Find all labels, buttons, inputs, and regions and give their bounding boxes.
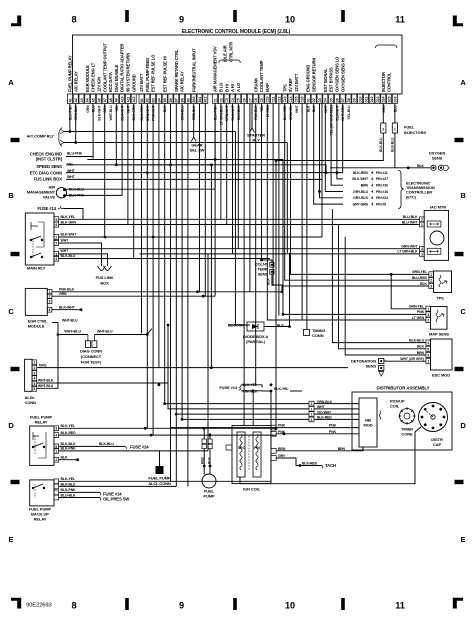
svg-text:C16: C16 (301, 96, 305, 102)
wire iac row3 (59, 248, 420, 250)
svg-text:5: 5 (55, 218, 57, 222)
svg-text:10: 10 (285, 601, 295, 611)
svg-text:FUSE #14: FUSE #14 (219, 385, 238, 390)
grid tick top x=343 (341, 10, 345, 22)
svg-text:D: D (460, 421, 466, 430)
svg-text:INJECTORS: INJECTORS (404, 130, 426, 135)
svg-text:3: 3 (427, 313, 429, 317)
svg-text:GRY-GRN: GRY-GRN (352, 202, 368, 206)
svg-text:GRN-WHT: GRN-WHT (401, 245, 418, 249)
svg-text:BLK-RED: BLK-RED (353, 171, 369, 175)
wire injector drops (276, 104, 395, 168)
wire egr wht-blu down (52, 322, 58, 324)
svg-text:4: 4 (421, 247, 423, 251)
svg-text:PARK/NEUTRAL INPUT: PARK/NEUTRAL INPUT (191, 48, 196, 92)
svg-text:D9: D9 (353, 98, 357, 102)
ECM connector A pin boxes (67, 94, 136, 104)
svg-text:CTRL MTR: CTRL MTR (229, 42, 234, 62)
svg-text:WHT-BLU: WHT-BLU (38, 384, 54, 388)
svg-text:A/C RELAY: A/C RELAY (73, 71, 78, 92)
sensor TPS (434, 271, 452, 301)
hei pin boxes (309, 400, 333, 422)
svg-text:3: 3 (311, 402, 313, 406)
wire starter rly (251, 104, 253, 129)
wire fuse14 mid runs (241, 385, 302, 391)
svg-text:COIL: COIL (390, 404, 400, 409)
wire main rly row3 BLK-WHT (59, 236, 322, 239)
svg-text:D2: D2 (312, 98, 316, 102)
ECM connector D pin boxes (305, 94, 397, 104)
relay MAIN RLY (25, 213, 54, 271)
svg-text:BRN: BRN (278, 447, 286, 451)
svg-text:3: 3 (33, 371, 35, 375)
svg-text:WHT-BLU: WHT-BLU (97, 330, 113, 334)
wire oxygen sens from left (330, 166, 431, 169)
wire detonation to esc (384, 360, 386, 362)
wire tps rows (282, 104, 429, 287)
ECM title (182, 29, 291, 35)
svg-text:CONN: CONN (25, 400, 37, 405)
grid letter A left (8, 78, 14, 87)
sensor DETONATION SENS (351, 359, 384, 377)
svg-text:D10: D10 (359, 96, 363, 102)
svg-text:1: 1 (311, 407, 313, 411)
wire main rly row4 WHT to fus link (59, 243, 102, 263)
svg-text:PIN #11: PIN #11 (376, 171, 388, 175)
svg-text:CORE: CORE (401, 432, 413, 437)
svg-text:RELAY: RELAY (35, 420, 48, 425)
esc pin boxes (400, 338, 430, 363)
svg-text:4: 4 (427, 341, 429, 345)
valve AIR MANAGEMENT VALVE (27, 185, 85, 200)
svg-text:3: 3 (55, 427, 57, 431)
grid letter D right (460, 421, 466, 430)
svg-text:PIN #16: PIN #16 (376, 190, 388, 194)
svg-text:YEL-BLU: YEL-BLU (347, 105, 351, 120)
svg-text:COOLANT TEMP: COOLANT TEMP (259, 60, 264, 92)
svg-text:A LO: A LO (236, 82, 241, 92)
svg-text:GRN-YEL: GRN-YEL (289, 105, 293, 120)
svg-text:2: 2 (55, 458, 57, 462)
svg-text:C2: C2 (219, 98, 223, 102)
svg-text:6: 6 (33, 387, 35, 391)
svg-text:(INST CLSTR): (INST CLSTR) (36, 157, 63, 162)
drawing number 90E22693 (26, 603, 52, 609)
svg-text:A8: A8 (109, 98, 113, 102)
sensor OXYGEN SENS (417, 151, 449, 171)
svg-text:3: 3 (427, 354, 429, 358)
svg-text:CAP: CAP (433, 442, 442, 447)
svg-text:10: 10 (285, 15, 295, 25)
transformer IGN COIL (232, 426, 271, 492)
svg-text:8: 8 (71, 15, 76, 25)
svg-text:ELECTRONIC CONTROL MODULE (ECM: ELECTRONIC CONTROL MODULE (ECM) (2.8L) (182, 29, 291, 35)
svg-text:PNK: PNK (278, 424, 286, 428)
grid letter D left (8, 421, 14, 430)
wire egr pin2 (52, 295, 215, 298)
svg-text:3: 3 (430, 285, 432, 289)
svg-text:SEL SW: SEL SW (190, 148, 205, 153)
wire main rly row6 BLK-BLU (59, 258, 270, 260)
svg-text:BLK-WHT: BLK-WHT (59, 305, 76, 309)
svg-text:MODULE: MODULE (28, 324, 45, 329)
svg-text:5: 5 (33, 382, 35, 386)
svg-text:2: 2 (311, 413, 313, 417)
svg-text:IGN COIL: IGN COIL (243, 487, 261, 492)
svg-text:EST SIGNAL: EST SIGNAL (323, 68, 328, 92)
svg-text:E: E (461, 535, 466, 544)
svg-text:GRY-BLU: GRY-BLU (353, 190, 368, 194)
svg-text:A1: A1 (68, 98, 72, 102)
svg-text:BRN: BRN (103, 105, 107, 113)
injector control label (376, 45, 397, 92)
svg-text:B3: B3 (152, 98, 156, 102)
fuel pump backup wire labels (61, 477, 77, 497)
svg-text:3: 3 (421, 252, 423, 256)
svg-text:A4: A4 (86, 98, 90, 102)
svg-text:B LO: B LO (219, 82, 224, 92)
svg-text:B: B (460, 191, 466, 200)
connector ALDL CONN (25, 359, 37, 405)
connector FUS LINK BOX upper (34, 175, 76, 182)
svg-text:B4: B4 (157, 98, 161, 102)
wire hei pnk rows to coil (358, 428, 359, 434)
ECM connector C pin boxes (213, 94, 305, 104)
grid number 11 top (395, 15, 405, 25)
aldl pin boxes (32, 360, 37, 391)
svg-text:BLK-GRN: BLK-GRN (132, 105, 136, 121)
svg-text:1: 1 (430, 273, 432, 277)
svg-text:FUEL PUMP FEED: FUEL PUMP FEED (145, 58, 150, 92)
grid tick left y=140 (11, 138, 20, 142)
svg-text:GRN-BLK: GRN-BLK (74, 105, 78, 121)
svg-text:BLK-BLU: BLK-BLU (390, 137, 394, 152)
svg-text:ALCL CONN: ALCL CONN (148, 481, 171, 486)
svg-text:BLK-YEL: BLK-YEL (61, 477, 76, 481)
svg-text:90E22693: 90E22693 (26, 603, 52, 609)
svg-text:BRN: BRN (338, 447, 346, 451)
idle air ctrl mtr label (219, 42, 240, 63)
svg-text:GRY: GRY (278, 454, 286, 458)
grid tick right y=369 (455, 367, 464, 371)
op ECM box U1 (73, 35, 403, 94)
svg-text:WHT-BLU: WHT-BLU (109, 105, 113, 121)
svg-text:GRY-BLK: GRY-BLK (353, 196, 368, 200)
grid letter E left (9, 535, 14, 544)
corner mark bottom-right (453, 598, 463, 609)
svg-text:D7: D7 (341, 98, 345, 102)
svg-text:2: 2 (33, 366, 35, 370)
wires ETC rows (314, 104, 343, 205)
fuel pump relay wire labels (61, 424, 77, 459)
svg-text:BRN: BRN (361, 184, 369, 188)
svg-text:GROUND: GROUND (131, 74, 136, 92)
svg-text:1: 1 (394, 128, 396, 132)
wire air mgmt valve to C1 (65, 104, 216, 196)
wire main rly row2 BLK-GRN long (0, 0, 1, 1)
svg-text:IDLE AIR: IDLE AIR (223, 45, 228, 62)
svg-text:C: C (8, 307, 14, 316)
svg-text:BLU-BLK: BLU-BLK (237, 105, 241, 120)
svg-text:SENS: SENS (258, 272, 269, 277)
svg-text:2: 2 (430, 279, 432, 283)
module ESC MOD (431, 339, 453, 378)
svg-text:BLK-BLU: BLK-BLU (379, 137, 383, 152)
wire iac row4 (140, 253, 420, 255)
svg-text:YEL (OR WHT-RED): YEL (OR WHT-RED) (330, 106, 334, 136)
svg-text:C15: C15 (295, 96, 299, 102)
wire timing conn up (306, 104, 308, 330)
svg-text:C13: C13 (283, 96, 287, 102)
svg-text:B HI: B HI (224, 84, 229, 92)
grid number 8 bottom (71, 601, 76, 611)
svg-text:PNK-WHT: PNK-WHT (152, 104, 156, 120)
wire esc rows (332, 209, 426, 361)
wire gear sel sw (193, 104, 195, 138)
connector A/C COMP RLY (27, 128, 64, 147)
wire aldl wht-blu (37, 333, 60, 388)
svg-text:BLK-WHT: BLK-WHT (61, 232, 78, 236)
wire aldl wht-blk (37, 325, 168, 383)
svg-text:B6: B6 (169, 98, 173, 102)
svg-text:BLK-YEL: BLK-YEL (61, 424, 76, 428)
fuel pump relay pin boxes (54, 426, 59, 462)
wire etc diag conn long run (66, 172, 343, 174)
svg-text:BLU-RED: BLU-RED (283, 105, 287, 120)
svg-text:AIR MANAGEMENT VSV: AIR MANAGEMENT VSV (213, 46, 218, 92)
svg-text:5V REF: 5V REF (288, 78, 293, 92)
svg-text:BLU-BLK: BLU-BLK (61, 494, 76, 498)
svg-text:(ETC): (ETC) (406, 194, 417, 199)
svg-text:FUEL PUMP: FUEL PUMP (148, 476, 171, 481)
wire diode box left (235, 325, 247, 327)
coil PICKUP COIL (379, 399, 405, 420)
svg-text:DISTRIBUTOR ASSEMBLY: DISTRIBUTOR ASSEMBLY (377, 386, 430, 391)
aldl wire labels (38, 363, 54, 388)
wire fuse14 loop (64, 209, 83, 220)
svg-text:B9: B9 (186, 98, 190, 102)
svg-text:GRN: GRN (59, 292, 67, 296)
svg-text:C6: C6 (243, 98, 247, 102)
assembly DISTRIBUTOR (352, 386, 452, 451)
svg-text:BLK-WHT: BLK-WHT (335, 104, 339, 120)
relay FUEL PUMP BACK-UP RELAY (29, 480, 54, 522)
grid tick left y=254 (11, 252, 20, 256)
motor IAC MTR (424, 205, 448, 261)
corner mark bottom-left (11, 598, 21, 609)
svg-text:(CONNECT: (CONNECT (81, 354, 102, 359)
svg-text:COOLANT TEMP OUTPUT: COOLANT TEMP OUTPUT (102, 43, 107, 92)
wire ign brn (276, 447, 363, 451)
svg-text:A3: A3 (80, 98, 84, 102)
wire A/C comp rly rows (64, 104, 287, 144)
wire fpr row3 blk-blu fuse24 (59, 442, 150, 450)
svg-text:12V BATT: 12V BATT (294, 73, 299, 92)
svg-text:EST REF PULSE LO: EST REF PULSE LO (151, 54, 156, 92)
main rly wire labels (61, 215, 78, 258)
motor FUEL PUMP (201, 439, 217, 499)
svg-text:C10: C10 (266, 96, 270, 102)
map pin boxes (409, 305, 431, 323)
svg-text:MAP: MAP (265, 83, 270, 92)
svg-text:PIN #27: PIN #27 (376, 177, 388, 181)
svg-text:D13: D13 (376, 96, 380, 102)
grid tick left y=369 (11, 367, 20, 371)
egr pin boxes (47, 289, 52, 312)
grid number 9 top (179, 15, 184, 25)
corner mark top-left (11, 16, 21, 27)
svg-text:BLK-PNK: BLK-PNK (68, 105, 72, 120)
connector TIMING CONN (304, 328, 326, 338)
svg-text:BLU-RED: BLU-RED (412, 276, 428, 280)
svg-text:B7: B7 (175, 98, 179, 102)
svg-text:1: 1 (427, 360, 429, 364)
svg-text:YEL: YEL (115, 105, 119, 111)
module HEI MOD (359, 398, 377, 447)
svg-text:BLK-RED: BLK-RED (302, 461, 318, 465)
svg-text:ORG: ORG (39, 363, 47, 367)
svg-text:C: C (460, 307, 466, 316)
svg-text:A/C RELAY: A/C RELAY (180, 71, 185, 92)
svg-text:A/C COMP RLY: A/C COMP RLY (27, 134, 55, 139)
svg-text:FUS LINK BOX: FUS LINK BOX (34, 177, 63, 182)
svg-text:WHT-BLU: WHT-BLU (64, 330, 81, 334)
sensor MAP SENS (429, 307, 449, 337)
wire fpr row5 blk stub (59, 458, 79, 461)
svg-text:BLK-RED: BLK-RED (61, 431, 77, 435)
svg-text:CONTROL: CONTROL (387, 72, 392, 92)
svg-text:99 SYSTEM RETURN: 99 SYSTEM RETURN (126, 53, 131, 92)
svg-text:GRN-WHT: GRN-WHT (146, 104, 150, 121)
svg-text:D12: D12 (370, 96, 374, 102)
svg-text:VALVE: VALVE (43, 195, 56, 200)
grid number 10 top (285, 15, 295, 25)
svg-text:BLK-ORG: BLK-ORG (140, 105, 144, 121)
grid tick right y=482 (455, 480, 464, 484)
svg-text:ETC DIAG CONN: ETC DIAG CONN (30, 170, 62, 175)
svg-text:D15: D15 (388, 96, 392, 102)
svg-text:PNK-BLK: PNK-BLK (243, 389, 259, 393)
svg-text:PUMP: PUMP (203, 494, 215, 499)
svg-text:1: 1 (427, 307, 429, 311)
grid tick bottom x=343 (341, 598, 345, 610)
svg-text:PIN #24: PIN #24 (376, 196, 388, 200)
svg-text:WHT-GRN: WHT-GRN (341, 105, 345, 121)
svg-text:BLK: BLK (420, 282, 427, 286)
svg-text:2: 2 (55, 236, 57, 240)
svg-text:A9: A9 (115, 98, 119, 102)
svg-text:D8: D8 (347, 98, 351, 102)
fuse FUSE 14 main rly (37, 206, 64, 211)
wire fbr row3 blk-pnk fuse14 (59, 491, 123, 496)
grid tick right y=140 (455, 138, 464, 142)
svg-text:LT GRN: LT GRN (266, 105, 270, 117)
svg-text:MAP SENS: MAP SENS (429, 332, 449, 337)
svg-text:B: B (8, 191, 14, 200)
svg-text:1: 1 (33, 361, 35, 365)
wire check eng ind (66, 104, 93, 157)
grid letter B right (460, 191, 466, 200)
svg-text:GRN-WHT: GRN-WHT (225, 104, 229, 121)
switch GEAR SEL SW (190, 137, 205, 153)
svg-text:D3: D3 (318, 98, 322, 102)
svg-text:1: 1 (421, 223, 423, 227)
svg-text:GRN: GRN (86, 105, 90, 113)
svg-text:FUSE #14: FUSE #14 (37, 206, 56, 211)
fuel pump backup relay pin boxes (54, 479, 59, 500)
svg-text:5: 5 (427, 347, 429, 351)
wire colour labels below connector (68, 104, 397, 135)
wire ign gry tach (276, 458, 336, 468)
svg-text:FUEL: FUEL (404, 125, 415, 130)
svg-text:4: 4 (311, 418, 313, 422)
svg-text:BLU-WHT: BLU-WHT (231, 104, 235, 120)
svg-text:CHECK ENG LT: CHECK ENG LT (91, 62, 96, 92)
svg-text:BLK-PNK: BLK-PNK (61, 488, 77, 492)
svg-text:WHT: WHT (324, 104, 328, 112)
svg-text:11: 11 (395, 601, 405, 611)
svg-text:OXYGEN SENS HI: OXYGEN SENS HI (340, 58, 345, 92)
grid letter E right (461, 535, 466, 544)
corner mark top-right (453, 16, 463, 27)
wire fpr row4 blk-pnk (59, 450, 208, 452)
svg-text:D5: D5 (330, 98, 334, 102)
svg-text:SENSOR RETURN: SENSOR RETURN (311, 58, 316, 92)
svg-text:11: 11 (395, 15, 405, 25)
svg-text:B10: B10 (192, 96, 196, 102)
svg-text:DIAG CONN: DIAG CONN (80, 349, 102, 354)
svg-text:C8: C8 (254, 98, 258, 102)
svg-text:TPS: TPS (282, 84, 287, 92)
svg-text:2: 2 (49, 295, 51, 299)
cap DISTR CAP (419, 403, 448, 448)
connector CHECK ENG IND (30, 152, 83, 162)
svg-text:A11: A11 (126, 97, 130, 103)
svg-text:BLK: BLK (417, 345, 424, 349)
svg-text:CRANK: CRANK (253, 78, 258, 92)
svg-text:IAC MTR: IAC MTR (430, 205, 446, 210)
svg-text:PNK: PNK (329, 424, 337, 428)
fuse FUSE 14 mid (219, 383, 289, 393)
ign coil wire labels (278, 424, 346, 458)
svg-text:OIL PRES SW: OIL PRES SW (103, 496, 129, 501)
svg-text:A12: A12 (132, 96, 136, 102)
svg-text:FUSE #24: FUSE #24 (130, 444, 149, 449)
wire bus horizontal runs (59, 157, 420, 451)
grid letter C left (8, 307, 14, 316)
svg-text:GRN: GRN (382, 105, 386, 113)
svg-text:A2: A2 (74, 98, 78, 102)
wire col 235.4 down to diode (234, 132, 236, 326)
svg-text:BLK-YEL: BLK-YEL (61, 215, 76, 219)
svg-text:MOD: MOD (363, 423, 372, 428)
svg-text:C4: C4 (231, 98, 235, 102)
wire fus link box upper (66, 104, 322, 180)
svg-text:2: 2 (427, 319, 429, 323)
grid number 11 bottom (395, 601, 405, 611)
grid letter B left (8, 191, 14, 200)
svg-text:TACH: TACH (325, 463, 336, 468)
svg-text:A10: A10 (121, 96, 125, 102)
ECM connector B pin boxes (139, 94, 208, 104)
svg-text:B8: B8 (181, 98, 185, 102)
wire speed sens (66, 104, 213, 370)
ign coil pin boxes (226, 425, 276, 460)
grid tick top x=235 (233, 10, 237, 22)
svg-text:4: 4 (55, 257, 57, 261)
svg-text:B11: B11 (198, 97, 202, 103)
svg-text:2: 2 (421, 218, 423, 222)
